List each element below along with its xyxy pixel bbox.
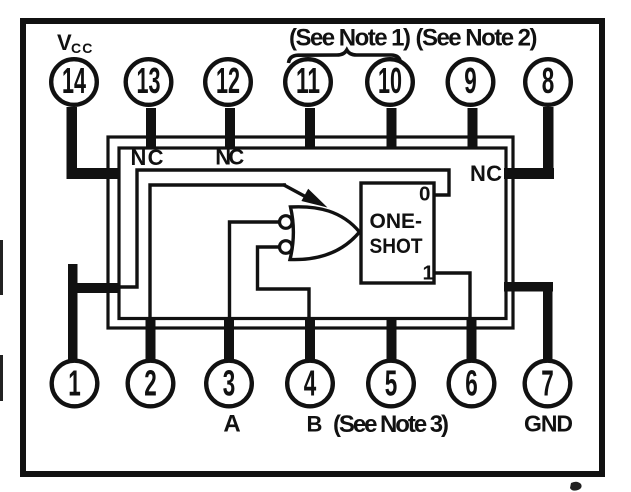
wire pin11 stub	[305, 108, 315, 149]
label Vcc	[57, 30, 94, 56]
svg-text:2: 2	[144, 363, 157, 404]
wire pin14 Vcc lead	[67, 107, 118, 179]
svg-text:1: 1	[423, 262, 434, 285]
pin 14 circle	[51, 59, 97, 105]
scan artifact left edge streaks	[0, 240, 3, 295]
arrowhead into gate	[301, 189, 327, 208]
wire pin 3 to gate input A	[230, 222, 281, 318]
svg-text:NC: NC	[215, 145, 244, 170]
pin 7 circle	[525, 361, 571, 407]
pin 6 circle	[449, 361, 495, 407]
svg-text:ONE-: ONE-	[370, 210, 423, 233]
pin 11 circle	[285, 59, 331, 105]
brace under See Note 1	[289, 50, 401, 63]
svg-text:B: B	[307, 412, 323, 437]
svg-text:V: V	[57, 30, 72, 55]
package outer rectangle	[108, 137, 513, 328]
wire pin3 stub	[224, 318, 234, 361]
svg-text:0: 0	[419, 183, 430, 206]
svg-text:(See Note 2): (See Note 2)	[416, 25, 538, 52]
gate input bubble lower	[280, 241, 293, 254]
wire pin12 stub	[225, 108, 235, 149]
wire pin13 stub	[146, 108, 156, 149]
svg-text:(See Note 1): (See Note 1)	[289, 25, 411, 52]
svg-text:NC: NC	[131, 145, 164, 170]
wire pin1 lead	[68, 264, 118, 361]
svg-text:4: 4	[304, 363, 317, 404]
wire pin8 lead	[504, 107, 554, 179]
package inner rectangle	[119, 148, 506, 319]
pin 8 circle	[525, 59, 571, 105]
wire pin7 GND lead	[504, 282, 553, 361]
svg-text:9: 9	[464, 60, 477, 101]
svg-text:(See Note 3): (See Note 3)	[333, 411, 449, 438]
svg-text:12: 12	[216, 60, 240, 101]
pin 12 circle	[205, 59, 251, 105]
svg-text:6: 6	[465, 363, 478, 404]
pin 13 circle	[126, 59, 172, 105]
wire pin2 stub	[146, 318, 156, 361]
svg-text:8: 8	[542, 60, 555, 101]
wire pin 4 to gate input B	[258, 247, 310, 318]
one-shot U1 box	[361, 183, 434, 283]
OR gate body	[290, 207, 360, 260]
wire one-shot 1 output to pin 6	[434, 273, 470, 318]
svg-text:GND: GND	[524, 411, 573, 437]
svg-text:11: 11	[296, 60, 320, 101]
wire pin 2 to trigger arrow	[150, 185, 286, 318]
svg-text:7: 7	[541, 363, 554, 404]
wire pin4 stub	[305, 318, 315, 361]
pin 10 circle	[367, 59, 413, 105]
pin 1 circle	[52, 361, 98, 407]
wire pin6 stub	[467, 318, 477, 361]
pin 9 circle	[448, 59, 494, 105]
pin 2 circle	[128, 361, 174, 407]
pin 3 circle	[206, 361, 252, 407]
svg-text:NC: NC	[470, 161, 502, 186]
wire one-shot 0 output to pin 1	[117, 170, 449, 287]
wire arrow shaft	[283, 185, 308, 199]
wire pin5 stub	[387, 318, 397, 361]
svg-text:SHOT: SHOT	[370, 235, 423, 258]
scan artifact bottom right blob	[570, 482, 582, 491]
svg-text:1: 1	[68, 363, 81, 404]
svg-text:3: 3	[223, 363, 236, 404]
svg-text:A: A	[223, 411, 240, 438]
wire pin9 stub	[468, 108, 478, 149]
svg-text:5: 5	[385, 363, 398, 404]
pin 4 circle	[287, 361, 333, 407]
svg-text:14: 14	[62, 60, 86, 101]
svg-text:10: 10	[378, 60, 402, 101]
svg-text:CC: CC	[71, 40, 94, 56]
pin 5 circle	[368, 361, 414, 407]
svg-text:13: 13	[137, 60, 161, 101]
wire pin10 stub	[387, 108, 397, 149]
gate input bubble upper	[280, 216, 293, 229]
